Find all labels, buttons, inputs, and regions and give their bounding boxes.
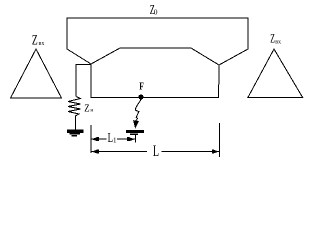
svg-text:вх: вх: [275, 40, 281, 46]
node F (feed point dot): [138, 94, 143, 99]
wire: feed lightning arrow from F down to ground: [135, 100, 141, 122]
svg-text:Z: Z: [32, 31, 38, 48]
right antenna triangle: [248, 49, 303, 97]
svg-text:1: 1: [113, 136, 117, 144]
svg-text:н: н: [90, 108, 93, 114]
ground (feed ground): [126, 130, 144, 135]
svg-text:Z: Z: [84, 102, 89, 114]
dimension line L1: [91, 131, 135, 145]
svg-text:вх: вх: [39, 41, 45, 47]
svg-text:L: L: [153, 142, 159, 160]
ground (below resistor): [67, 130, 84, 137]
dimension tick left: [90, 125, 92, 153]
left antenna triangle: [11, 49, 62, 98]
wire: left stub from body to resistor: [76, 65, 91, 97]
wire: outer top structure Z0 outline: [67, 18, 248, 65]
wire: inner hexagon body outline: [91, 48, 219, 97]
dimension tick middle (under feed ground): [134, 135, 136, 143]
resistor Zn (termination impedance): [68, 97, 81, 117]
wire: resistor lead to ground: [74, 116, 76, 130]
dimension line L: [91, 142, 219, 160]
svg-text:F: F: [139, 80, 144, 91]
svg-text:0: 0: [154, 8, 158, 17]
dimension tick right: [218, 123, 220, 157]
